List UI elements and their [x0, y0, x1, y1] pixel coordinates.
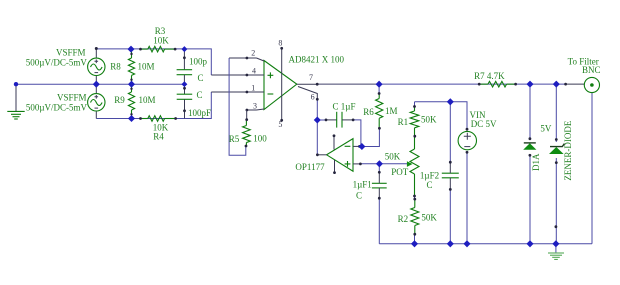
svg-text:10M: 10M: [137, 61, 154, 71]
svg-text:10M: 10M: [138, 95, 155, 105]
label R6: [363, 106, 397, 117]
label R5: [229, 134, 268, 145]
wire output rail y=84: [317, 83, 565, 85]
wire BNC down: [591, 93, 593, 244]
label R3: [153, 26, 169, 45]
svg-text:VSFFM: VSFFM: [56, 47, 86, 57]
junction rail zener gnd: [552, 240, 559, 247]
svg-text:R2: R2: [398, 214, 409, 224]
junction -in node: [358, 143, 365, 150]
op-amp U1 AD8421: [246, 47, 319, 122]
source V2 VSFFM: [88, 84, 105, 118]
svg-text:2: 2: [251, 49, 255, 58]
wire zener branch: [555, 84, 557, 244]
label C 1uF: [333, 102, 356, 112]
svg-text:R6: R6: [363, 107, 374, 117]
junction R8 R9 mid: [128, 81, 135, 88]
capacitor C 100p: [177, 49, 193, 84]
potentiometer POT 50K: [407, 136, 419, 197]
svg-text:500µV/DC-5mV: 500µV/DC-5mV: [26, 102, 88, 112]
junction cap mid node: [181, 81, 187, 87]
svg-text:R8: R8: [110, 61, 121, 71]
label 1uF1: [353, 180, 372, 201]
wire VIN net: [415, 102, 468, 244]
svg-text:8: 8: [278, 39, 282, 48]
junction rail D1A: [526, 240, 533, 247]
wire cap C feedback: [318, 120, 361, 147]
junction pin6 node: [314, 116, 321, 123]
resistor R1: [410, 105, 419, 138]
resistor R9: [128, 84, 134, 118]
label BNC: [568, 56, 601, 74]
svg-text:1µF2: 1µF2: [420, 170, 439, 180]
label R1: [398, 114, 437, 127]
label R4: [153, 123, 169, 142]
svg-text:5V: 5V: [540, 124, 552, 134]
pin numbers U1: [251, 39, 314, 130]
svg-text:C 1µF: C 1µF: [333, 102, 356, 112]
svg-text:R9: R9: [114, 95, 125, 105]
junction cap top node: [181, 46, 187, 52]
svg-text:10K: 10K: [153, 35, 169, 45]
source V1 VSFFM: [88, 47, 105, 84]
connector BNC: [564, 77, 599, 92]
wire 1uF1 branch: [378, 164, 380, 244]
svg-text:ZENER-DIODE: ZENER-DIODE: [563, 120, 573, 180]
resistor R3: [139, 46, 176, 52]
label 1uF2: [420, 170, 439, 190]
svg-text:C: C: [197, 73, 203, 83]
wire mid rail y=84: [16, 83, 184, 85]
svg-text:C: C: [426, 180, 432, 190]
zener diode: [549, 138, 565, 228]
junction +in node: [376, 160, 383, 167]
capacitor 1uF2: [442, 161, 459, 191]
resistor R7: [478, 81, 517, 87]
capacitor C 100pF: [177, 84, 193, 118]
ground left: [7, 84, 24, 119]
svg-text:50K: 50K: [385, 151, 401, 161]
svg-text:VSFFM: VSFFM: [57, 92, 87, 102]
svg-text:R1: R1: [398, 117, 409, 127]
label C 100p: [189, 56, 208, 83]
wire D1A branch: [529, 84, 531, 244]
junction rail VIN: [463, 240, 470, 247]
svg-text:1µF1: 1µF1: [353, 180, 372, 190]
junction out/R6 node: [376, 81, 383, 88]
svg-text:D1A: D1A: [531, 153, 541, 171]
capacitor 1uF1: [372, 171, 387, 200]
label V2: [26, 92, 88, 112]
svg-text:3: 3: [253, 101, 257, 110]
label AD8421: [289, 55, 345, 65]
junction VIN node: [447, 98, 454, 105]
wire R6 branch: [362, 84, 380, 146]
svg-text:100: 100: [253, 134, 267, 144]
svg-text:DC 5V: DC 5V: [471, 119, 497, 129]
resistor R2: [411, 198, 419, 236]
svg-text:7: 7: [309, 73, 313, 82]
svg-text:POT: POT: [391, 167, 409, 177]
junction rail 1uF2: [447, 240, 454, 247]
junction R8 top: [127, 46, 134, 53]
label R9: [114, 95, 155, 105]
wire R1 POT R2 chain: [414, 102, 416, 244]
diode D1A: [523, 137, 536, 156]
wire opamp out to pin6 node: [316, 99, 318, 155]
resistor R5: [243, 110, 251, 147]
ground right: [548, 244, 564, 260]
wire top rail y=49: [96, 49, 247, 75]
junction R9 bottom: [128, 115, 135, 122]
label VIN: [470, 110, 497, 129]
capacitor C 1uF: [325, 112, 355, 128]
label OP1177: [295, 162, 325, 172]
wire 1uF2 branch: [449, 102, 451, 244]
junction V1-V2 node: [93, 81, 100, 88]
wire bottom rail y=118.5: [96, 92, 247, 119]
source VIN DC5V: [458, 128, 476, 154]
svg-text:1: 1: [251, 84, 255, 93]
resistor R8: [128, 49, 134, 84]
svg-text:500µV/DC-5mV: 500µV/DC-5mV: [26, 58, 88, 68]
wire R5 to pin2: [229, 58, 247, 155]
label zener: [540, 120, 572, 180]
label R7: [474, 71, 505, 81]
junction out D1A: [526, 81, 533, 88]
svg-text:100p: 100p: [189, 56, 208, 66]
svg-text:50K: 50K: [421, 213, 437, 223]
svg-text:C: C: [356, 191, 362, 201]
svg-text:100pF: 100pF: [188, 108, 211, 118]
svg-text:4: 4: [252, 67, 256, 76]
label D1A: [531, 153, 541, 171]
resistor R4: [139, 116, 177, 122]
svg-text:6: 6: [311, 92, 315, 101]
svg-text:C: C: [196, 90, 202, 100]
svg-text:R7 4.7K: R7 4.7K: [474, 71, 505, 81]
label C 100pF: [188, 90, 211, 118]
label POT: [385, 151, 409, 177]
svg-text:OP1177: OP1177: [295, 162, 325, 172]
svg-text:BNC: BNC: [582, 65, 601, 75]
label R2: [398, 213, 438, 225]
svg-text:5: 5: [278, 120, 282, 129]
junction rail R2: [411, 240, 418, 247]
svg-text:R4: R4: [153, 132, 164, 142]
junction left ground node: [14, 82, 18, 86]
junction out zener: [553, 81, 560, 88]
label V1: [26, 47, 88, 67]
op-amp U2 OP1177: [316, 134, 362, 174]
svg-text:R5: R5: [229, 134, 240, 144]
wire bottom ground rail: [379, 243, 592, 245]
svg-text:AD8421 X 100: AD8421 X 100: [289, 55, 345, 65]
svg-text:50K: 50K: [421, 114, 437, 124]
label R8: [110, 61, 154, 71]
wire +in to POT wiper: [360, 163, 407, 165]
resistor R6: [376, 92, 383, 130]
svg-text:1M: 1M: [385, 106, 398, 116]
